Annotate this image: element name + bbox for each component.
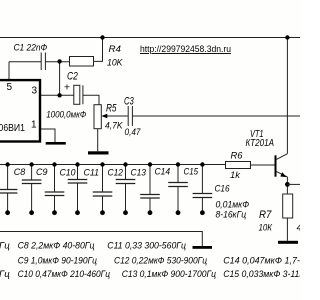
svg-text:C9 1,0мкФ 90-190Гц: C9 1,0мкФ 90-190Гц [18, 256, 98, 267]
capacitor C14 branch [140, 165, 160, 213]
transistor VT1 [276, 154, 288, 194]
svg-text:C14: C14 [155, 167, 171, 178]
wire R5 bottom lead [97, 129, 99, 152]
svg-text:5: 5 [7, 82, 13, 93]
junction node C1/R4 [57, 59, 61, 63]
svg-text:1000,0мкФ: 1000,0мкФ [46, 110, 86, 121]
wire R5 wiper arrow [105, 115, 129, 117]
wire R6 to base [251, 164, 276, 166]
wire R4 right lead [94, 38, 103, 62]
wire R7 bottom [286, 218, 288, 241]
svg-text:1: 1 [31, 120, 37, 131]
collector diagonal [276, 154, 287, 160]
svg-text:C1 22nФ: C1 22nФ [14, 43, 48, 54]
ground pin1 [46, 142, 66, 145]
svg-text:C2: C2 [67, 71, 78, 83]
wire pin1 lead [40, 129, 55, 142]
ground bottom rail [193, 246, 213, 249]
resistor R7 body [283, 194, 293, 218]
resistor R6 body [226, 162, 251, 169]
svg-text:C15 0,033мкФ 3-11кГц: C15 0,033мкФ 3-11кГц [223, 269, 300, 280]
capacitor C11 branch [68, 165, 88, 213]
capacitor C15 branch [168, 165, 188, 213]
R5 wiper arrowhead [101, 114, 107, 119]
svg-text:C12 0,22мкФ 530-900Гц: C12 0,22мкФ 530-900Гц [114, 256, 207, 267]
emitter arrowhead [280, 172, 286, 177]
wire C1 to R4 [45, 61, 69, 63]
svg-text:4,7K: 4,7K [105, 121, 123, 132]
svg-text:C8: C8 [14, 167, 26, 178]
ground R7 [278, 241, 298, 244]
svg-text:C16: C16 [215, 184, 231, 195]
svg-text:КТ201А: КТ201А [246, 138, 275, 149]
wire emitter down [286, 177, 288, 194]
svg-text:C10 0,47мкФ 210-460Гц: C10 0,47мкФ 210-460Гц [18, 269, 111, 280]
svg-text:3: 3 [32, 86, 38, 97]
capacitor branches C8..C16 on bus [0, 165, 212, 213]
capacitor C12 branch [93, 165, 113, 213]
capacitor C9 branch [22, 165, 42, 213]
wire collector vertical [286, 38, 288, 154]
svg-text:C12: C12 [108, 168, 124, 179]
svg-text:0,47: 0,47 [125, 127, 142, 138]
wire bottom common rail [0, 232, 202, 247]
junction node pin3 wire [57, 93, 61, 97]
wire C1 left lead [9, 61, 41, 63]
svg-text:+: + [64, 81, 70, 93]
svg-text:4: 4 [297, 223, 301, 234]
svg-text:1k: 1k [230, 170, 241, 181]
wire pin3 lead [40, 94, 74, 96]
capacitor C2 plates [74, 85, 80, 104]
capacitor C10 branch [45, 165, 65, 213]
svg-text:C10: C10 [60, 168, 77, 179]
svg-text:06ВИ1: 06ВИ1 [0, 123, 25, 134]
capacitor C3 plates [127, 106, 129, 126]
svg-text:Гц: Гц [0, 269, 10, 280]
svg-text:C11: C11 [84, 168, 100, 179]
svg-text:10К: 10К [259, 223, 274, 234]
wire C3 output [132, 115, 300, 117]
svg-text:C3: C3 [124, 96, 134, 108]
op-amp U1 IC КР1006ВИ1 box [0, 80, 40, 141]
capacitor C13 branch [116, 165, 136, 213]
base bar [275, 155, 277, 176]
svg-text:R6: R6 [231, 151, 244, 162]
svg-text:C8 2,2мкФ 40-80Гц: C8 2,2мкФ 40-80Гц [18, 241, 95, 252]
svg-text:http://299792458.3dn.ru: http://299792458.3dn.ru [140, 44, 231, 54]
svg-text:R5: R5 [106, 102, 117, 114]
junction node on top rail (collector) [285, 35, 289, 39]
svg-text:10K: 10K [107, 58, 123, 69]
junction node emitter [285, 182, 290, 187]
node dots on bus top [5, 162, 204, 166]
svg-text:C13: C13 [131, 168, 147, 179]
svg-text:C15: C15 [184, 167, 199, 178]
capacitor C1 plates [40, 53, 42, 71]
ground R5 [88, 151, 109, 154]
resistor R4 body [70, 57, 94, 67]
emitter diagonal [276, 171, 287, 177]
wire emitter output [287, 183, 300, 185]
svg-text:C11 0,33 300-560Гц: C11 0,33 300-560Гц [107, 241, 186, 252]
svg-text:8-16кГц: 8-16кГц [216, 210, 247, 221]
svg-text:Гц: Гц [0, 241, 10, 252]
wire pin5 lead vertical [8, 62, 10, 80]
svg-text:R7: R7 [259, 209, 272, 221]
junction node on top rail (R4) [100, 35, 104, 39]
node dots branch bottoms [5, 210, 205, 215]
svg-text:C13 0,1мкФ 900-1700Гц: C13 0,1мкФ 900-1700Гц [122, 269, 217, 280]
wire capacitor bus [0, 164, 226, 166]
svg-text:C9: C9 [36, 167, 48, 178]
capacitor C8 branch [0, 165, 17, 213]
resistor R5 body [94, 105, 101, 129]
wire node to pin3 vertical [59, 61, 61, 95]
svg-text:R4: R4 [109, 44, 122, 55]
wire C2 to R5 [83, 95, 99, 104]
svg-text:C14 0,047мкФ 1,7-3кГц: C14 0,047мкФ 1,7-3кГц [223, 256, 300, 267]
wire top supply rail [0, 37, 300, 39]
capacitor C16 branch [193, 165, 213, 213]
